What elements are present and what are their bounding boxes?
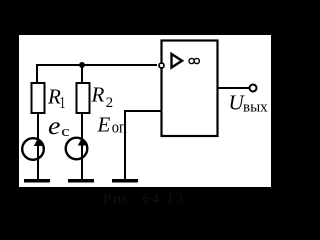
- svg-text:2: 2: [106, 95, 114, 111]
- svg-text:с: с: [61, 123, 70, 140]
- svg-text:e: e: [48, 111, 61, 139]
- svg-text:Рис. 64.13: Рис. 64.13: [103, 191, 185, 207]
- svg-text:вых: вых: [243, 100, 268, 116]
- svg-text:E: E: [97, 113, 111, 137]
- svg-text:1: 1: [60, 94, 66, 112]
- svg-text:R: R: [91, 83, 105, 107]
- svg-text:оп: оп: [112, 118, 127, 136]
